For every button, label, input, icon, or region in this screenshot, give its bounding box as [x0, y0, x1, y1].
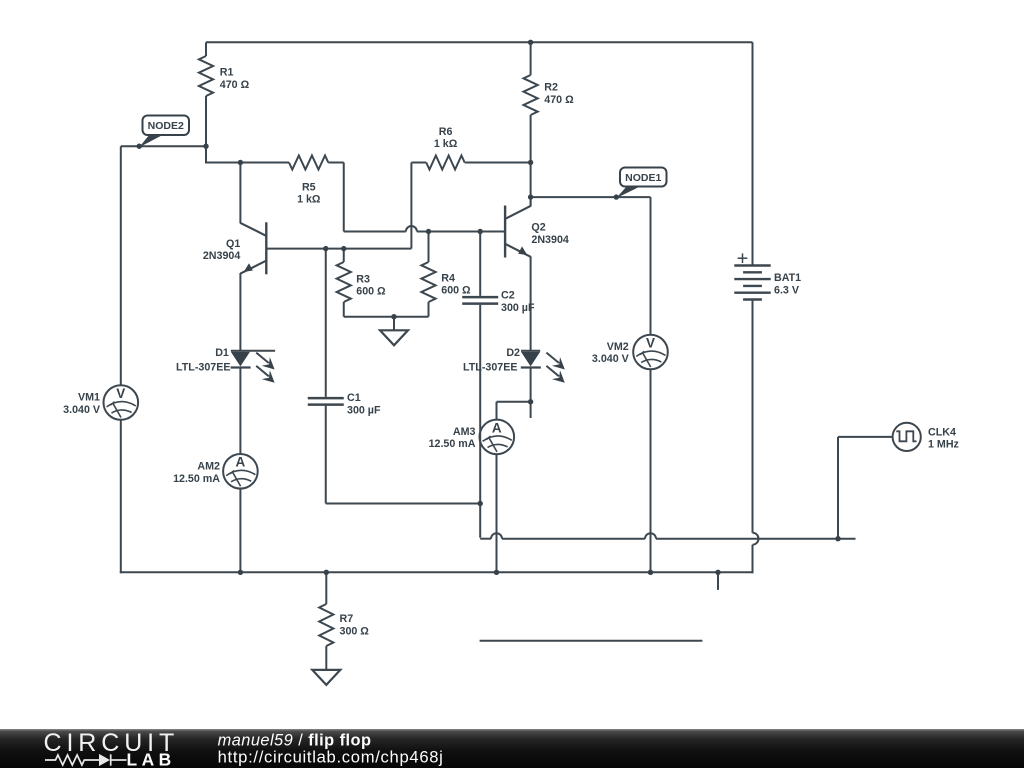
svg-text:470 Ω: 470 Ω — [220, 79, 250, 91]
svg-text:VM1: VM1 — [78, 392, 100, 404]
svg-text:12.50 mA: 12.50 mA — [173, 473, 220, 485]
svg-text:3.040 V: 3.040 V — [63, 404, 101, 416]
svg-text:LTL-307EE: LTL-307EE — [176, 362, 230, 374]
svg-text:300 Ω: 300 Ω — [340, 625, 370, 637]
svg-text:NODE2: NODE2 — [148, 120, 184, 132]
svg-text:300 µF: 300 µF — [347, 405, 381, 417]
svg-text:D2: D2 — [506, 347, 520, 359]
svg-text:V: V — [116, 386, 125, 401]
svg-text:600 Ω: 600 Ω — [356, 286, 386, 298]
svg-text:LAB: LAB — [127, 749, 176, 768]
svg-text:manuel59 / flip flop: manuel59 / flip flop — [218, 731, 372, 749]
svg-text:R1: R1 — [220, 67, 234, 79]
svg-text:C2: C2 — [501, 290, 515, 302]
svg-text:AM2: AM2 — [197, 460, 220, 472]
svg-text:3.040 V: 3.040 V — [592, 353, 630, 365]
svg-text:R7: R7 — [340, 613, 354, 625]
svg-text:1 MHz: 1 MHz — [928, 439, 959, 451]
svg-text:C1: C1 — [347, 392, 361, 404]
svg-text:R5: R5 — [302, 181, 316, 193]
svg-text:R3: R3 — [356, 273, 370, 285]
svg-text:Q1: Q1 — [226, 238, 240, 250]
svg-text:12.50 mA: 12.50 mA — [429, 438, 476, 450]
svg-text:600 Ω: 600 Ω — [441, 285, 471, 297]
svg-text:470 Ω: 470 Ω — [544, 94, 574, 106]
svg-text:CLK4: CLK4 — [928, 426, 956, 438]
svg-text:A: A — [492, 420, 502, 435]
svg-text:LTL-307EE: LTL-307EE — [463, 362, 517, 374]
svg-text:D1: D1 — [215, 347, 229, 359]
svg-text:Q2: Q2 — [531, 222, 545, 234]
svg-text:R6: R6 — [439, 126, 453, 138]
svg-text:300 µF: 300 µF — [501, 302, 535, 314]
svg-text:NODE1: NODE1 — [625, 172, 661, 184]
svg-text:V: V — [646, 335, 655, 350]
svg-text:1 kΩ: 1 kΩ — [434, 138, 458, 150]
svg-text:2N3904: 2N3904 — [203, 250, 240, 262]
svg-text:R2: R2 — [544, 82, 558, 94]
svg-text:1 kΩ: 1 kΩ — [297, 194, 321, 206]
svg-text:BAT1: BAT1 — [774, 272, 801, 284]
svg-text:R4: R4 — [441, 272, 455, 284]
svg-text:http://circuitlab.com/chp468j: http://circuitlab.com/chp468j — [218, 748, 444, 767]
svg-text:2N3904: 2N3904 — [531, 234, 568, 246]
svg-text:A: A — [236, 455, 246, 470]
svg-text:VM2: VM2 — [607, 341, 629, 353]
svg-text:AM3: AM3 — [453, 426, 476, 438]
svg-text:6.3 V: 6.3 V — [774, 284, 800, 296]
